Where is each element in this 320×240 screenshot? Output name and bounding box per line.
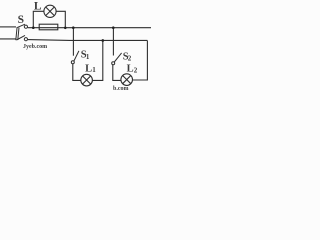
svg-text:S: S <box>18 14 24 26</box>
svg-text:L: L <box>34 0 42 12</box>
svg-text:2: 2 <box>134 66 138 74</box>
svg-text:b.com: b.com <box>113 86 129 91</box>
svg-text:L: L <box>85 63 92 74</box>
svg-text:L: L <box>127 64 134 75</box>
svg-text:1: 1 <box>92 66 96 74</box>
svg-text:2: 2 <box>128 54 132 62</box>
svg-text:Jyeb.com: Jyeb.com <box>23 44 47 50</box>
svg-text:1: 1 <box>86 53 90 61</box>
